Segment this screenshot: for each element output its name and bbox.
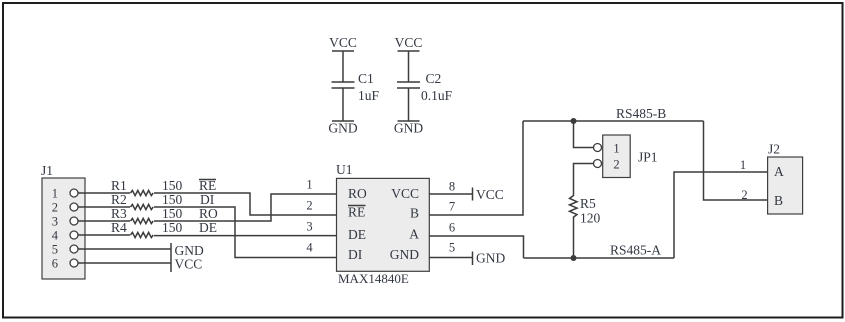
C1 top plate bbox=[332, 81, 355, 83]
svg-text:R3: R3 bbox=[111, 206, 127, 221]
capacitor C1 bbox=[328, 35, 379, 136]
svg-text:JP1: JP1 bbox=[638, 150, 658, 165]
svg-text:GND: GND bbox=[476, 251, 505, 266]
svg-text:150: 150 bbox=[162, 178, 183, 193]
connector J2 bbox=[768, 142, 803, 215]
svg-text:DE: DE bbox=[348, 227, 366, 242]
svg-text:GND: GND bbox=[394, 121, 423, 136]
svg-text:3: 3 bbox=[52, 215, 58, 229]
J1 pin 4 circle bbox=[70, 231, 78, 239]
wire U1 pin6 A net jog down bbox=[429, 236, 524, 258]
terminal bar GND at U1 pin5 bbox=[472, 252, 474, 266]
GND bar C1 bbox=[332, 120, 354, 122]
svg-text:DE: DE bbox=[199, 220, 217, 235]
terminal bar for J1 GND/VCC bbox=[170, 243, 172, 272]
svg-text:2: 2 bbox=[613, 158, 619, 172]
JP1 pin 2 circle bbox=[594, 160, 602, 168]
terminal bar VCC at U1 pin8 bbox=[472, 188, 474, 201]
resistor R2 bbox=[131, 204, 154, 209]
wire RS485-B junction down to JP1 pin1 bbox=[574, 121, 594, 148]
svg-text:VCC: VCC bbox=[476, 187, 504, 202]
wire net RS485-A horizontal bbox=[524, 257, 675, 259]
J1 pin 2 circle bbox=[70, 203, 78, 211]
wire JP1 pin2 to R5 bbox=[574, 164, 594, 197]
svg-text:A: A bbox=[409, 227, 419, 242]
svg-text:R4: R4 bbox=[111, 220, 127, 235]
wire C1 bottom plate to GND bbox=[342, 88, 344, 121]
svg-text:DI: DI bbox=[200, 192, 215, 207]
C1 bottom plate bbox=[332, 87, 355, 89]
wire J1 pin3 to R3 bbox=[78, 220, 130, 222]
svg-text:150: 150 bbox=[162, 206, 183, 221]
svg-text:J1: J1 bbox=[41, 163, 53, 178]
svg-text:A: A bbox=[774, 164, 784, 179]
svg-text:4: 4 bbox=[306, 241, 313, 255]
wire net RO from R3 to U1 pin 1 bbox=[154, 194, 337, 221]
IC U1 MAX14840E bbox=[336, 162, 429, 286]
wire net RE from R1 to U1 pin 2 bbox=[154, 193, 337, 215]
wire net DI from R2 to U1 pin 4 bbox=[154, 207, 337, 258]
resistor R4 bbox=[131, 232, 154, 237]
svg-text:C2: C2 bbox=[426, 71, 442, 86]
J1 pin 6 circle bbox=[70, 259, 78, 267]
wire RS485-B drop to J2 pin2 bbox=[704, 121, 769, 200]
svg-text:GND: GND bbox=[328, 121, 357, 136]
wire C2 bottom plate to GND bbox=[408, 88, 410, 121]
C2 bottom plate bbox=[397, 87, 420, 89]
svg-text:6: 6 bbox=[52, 257, 58, 271]
svg-text:GND: GND bbox=[390, 247, 419, 262]
svg-text:1: 1 bbox=[52, 187, 58, 201]
svg-text:5: 5 bbox=[449, 241, 455, 255]
svg-text:DI: DI bbox=[348, 247, 363, 262]
svg-text:MAX14840E: MAX14840E bbox=[338, 271, 409, 286]
VCC power bar C1 bbox=[332, 50, 354, 52]
wire J1 pin1 to R1 bbox=[78, 192, 130, 194]
JP1 pin 1 circle bbox=[594, 144, 602, 152]
GND bar C2 bbox=[398, 120, 420, 122]
svg-text:B: B bbox=[774, 193, 783, 208]
svg-text:1uF: 1uF bbox=[358, 88, 380, 103]
svg-text:R1: R1 bbox=[111, 178, 127, 193]
svg-text:RO: RO bbox=[199, 206, 218, 221]
wire J1 pin6 to VCC bar bbox=[78, 262, 171, 264]
svg-text:U1: U1 bbox=[336, 162, 353, 177]
J1 pin 3 circle bbox=[70, 217, 78, 225]
connector J1 bbox=[41, 163, 85, 279]
svg-text:7: 7 bbox=[449, 200, 455, 214]
svg-text:RS485-A: RS485-A bbox=[610, 243, 661, 258]
capacitor C2 bbox=[394, 35, 453, 136]
wire U1 pin5 to GND bar bbox=[429, 257, 473, 259]
VCC power bar C2 bbox=[398, 50, 420, 52]
svg-text:VCC: VCC bbox=[391, 186, 419, 201]
svg-text:C1: C1 bbox=[358, 71, 374, 86]
wire U1 pin7 B net riser bbox=[429, 121, 523, 215]
wire VCC to C2 top plate bbox=[408, 51, 410, 82]
svg-text:1: 1 bbox=[613, 142, 619, 156]
svg-text:120: 120 bbox=[580, 211, 601, 226]
svg-text:J2: J2 bbox=[768, 142, 780, 157]
svg-text:4: 4 bbox=[52, 229, 59, 243]
jumper JP1 bbox=[603, 135, 658, 178]
junction on RS485-A at R5 branch bbox=[571, 255, 577, 261]
wire net RS485-B horizontal bbox=[523, 120, 704, 122]
C2 top plate bbox=[397, 81, 420, 83]
wire J1 pin2 to R2 bbox=[78, 206, 130, 208]
svg-text:8: 8 bbox=[449, 180, 455, 194]
svg-text:VCC: VCC bbox=[175, 257, 203, 272]
svg-text:RO: RO bbox=[348, 186, 367, 201]
svg-text:5: 5 bbox=[52, 243, 58, 257]
svg-text:R5: R5 bbox=[580, 196, 596, 211]
resistor R1 bbox=[131, 190, 154, 195]
svg-text:1: 1 bbox=[306, 178, 312, 192]
wire RS485-A riser to J2 pin1 bbox=[674, 172, 768, 258]
J1 pin 5 circle bbox=[70, 245, 78, 253]
svg-text:0.1uF: 0.1uF bbox=[421, 88, 453, 103]
wire net DE from R4 to U1 pin 3 bbox=[154, 235, 337, 237]
svg-text:1: 1 bbox=[740, 158, 746, 172]
svg-text:VCC: VCC bbox=[395, 35, 423, 50]
junction on RS485-B at JP1 branch bbox=[571, 118, 577, 124]
svg-text:R2: R2 bbox=[111, 192, 127, 207]
svg-text:RE: RE bbox=[348, 205, 365, 220]
svg-text:2: 2 bbox=[52, 201, 58, 215]
resistor R5 bbox=[570, 196, 578, 218]
svg-text:6: 6 bbox=[449, 221, 455, 235]
resistor R3 bbox=[131, 218, 154, 223]
svg-text:150: 150 bbox=[162, 220, 183, 235]
svg-text:2: 2 bbox=[306, 199, 312, 213]
svg-text:150: 150 bbox=[162, 192, 183, 207]
svg-text:B: B bbox=[410, 206, 419, 221]
svg-text:VCC: VCC bbox=[329, 35, 357, 50]
wire U1 pin8 to VCC bar bbox=[429, 193, 473, 195]
svg-text:2: 2 bbox=[741, 188, 747, 202]
wire J1 pin4 to R4 bbox=[78, 234, 130, 236]
wire R5 bottom to RS485-A bbox=[573, 218, 575, 259]
wire VCC to C1 top plate bbox=[342, 51, 344, 82]
wire J1 pin5 to GND bar bbox=[78, 248, 171, 250]
svg-text:3: 3 bbox=[306, 220, 312, 234]
svg-text:RS485-B: RS485-B bbox=[616, 106, 666, 121]
J1 pin 1 circle bbox=[70, 189, 78, 197]
